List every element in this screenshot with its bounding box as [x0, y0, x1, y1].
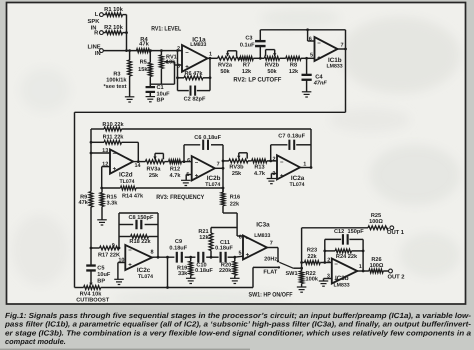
svg-text:R10 22k: R10 22k: [102, 121, 124, 128]
svg-text:R1 10k: R1 10k: [104, 6, 123, 13]
resistor R25 100R: [368, 213, 388, 230]
svg-text:IC2c: IC2c: [137, 267, 151, 274]
svg-text:6: 6: [187, 158, 190, 164]
svg-text:R25: R25: [371, 213, 381, 219]
wire C7 right vertical / R10 feedback down: [310, 129, 313, 169]
svg-text:10uF: 10uF: [157, 91, 171, 97]
svg-text:RV1: LEVEL: RV1: LEVEL: [151, 26, 181, 33]
terminal OUT 1: [387, 226, 405, 236]
capacitor C9 0.18uF: [169, 239, 190, 262]
potentiometer RV3a 25k: [145, 153, 164, 179]
ground C4: [302, 92, 312, 97]
svg-text:150pF: 150pF: [348, 229, 365, 235]
wire IC2b output jog up to RV3b rail: [223, 160, 229, 162]
op-amp IC2d TL074: [91, 148, 142, 188]
svg-text:R8: R8: [290, 63, 297, 69]
svg-text:25k: 25k: [149, 172, 159, 179]
capacitor C2 82pF: [178, 86, 211, 103]
svg-text:0.18uF: 0.18uF: [195, 268, 213, 274]
svg-text:−: −: [128, 248, 132, 254]
svg-text:BP: BP: [157, 98, 165, 104]
svg-text:R17 22K: R17 22K: [98, 252, 120, 258]
wire C3 top rail to IC1b output: [260, 29, 345, 31]
svg-text:4.7k: 4.7k: [254, 170, 266, 177]
svg-text:er stage (IC3b). The combinati: er stage (IC3b). The combination is a ve…: [5, 328, 471, 337]
wire IC2b output: [215, 167, 223, 169]
resistor R13 4.7k: [248, 159, 277, 177]
capacitor C12 150pF: [325, 229, 365, 272]
svg-text:−: −: [113, 152, 117, 158]
ground IC2a pin3: [267, 179, 277, 184]
potentiometer RV2a 50k: [218, 51, 240, 75]
wire IC3b pin2 node vertical: [323, 239, 326, 264]
svg-text:LM833: LM833: [334, 282, 350, 288]
svg-text:22k: 22k: [307, 253, 317, 260]
wire R16 bottom to IC3a pin6 node: [223, 206, 237, 228]
svg-text:R18 22k: R18 22k: [129, 238, 151, 245]
svg-text:6: 6: [239, 234, 242, 240]
capacitor C4 47nF: [302, 57, 328, 92]
svg-text:+: +: [280, 174, 284, 180]
svg-text:CUT/BOOST: CUT/BOOST: [76, 296, 110, 303]
svg-text:pass filter (IC1b), a parametr: pass filter (IC1b), a parametric equalis…: [4, 320, 472, 329]
capacitor C8 150pF feedback loop: [119, 213, 158, 257]
capacitor C11 0.18uF: [211, 240, 235, 263]
terminal L (SPK IN left): [95, 12, 104, 18]
svg-text:0.18uF: 0.18uF: [215, 246, 233, 252]
resistor R10 22k: [91, 128, 104, 130]
svg-text:1: 1: [359, 264, 362, 270]
svg-text:C1: C1: [157, 85, 164, 91]
svg-text:2: 2: [327, 257, 330, 263]
terminal R (SPK IN right): [94, 30, 103, 36]
wire input node vertical x91: [90, 129, 93, 192]
resistor R9 47k: [78, 192, 92, 207]
svg-text:−: −: [246, 237, 250, 243]
label SPK IN: [88, 18, 101, 31]
scan mottling: [12, 9, 460, 305]
svg-text:+: +: [195, 174, 199, 180]
op-amp IC1a LM833: [177, 37, 212, 72]
wire R10 feedback line to IC2a output: [122, 128, 312, 130]
svg-text:IN: IN: [95, 51, 101, 57]
svg-text:12: 12: [102, 161, 108, 167]
svg-text:33k: 33k: [178, 270, 188, 277]
svg-text:SW1: SW1: [285, 271, 297, 277]
wire IC2b pin5 to ground: [186, 175, 192, 181]
svg-text:0.18uF: 0.18uF: [169, 245, 187, 251]
svg-text:R26: R26: [371, 257, 381, 263]
wire IC3b output: [357, 270, 369, 272]
svg-text:R24 22k: R24 22k: [336, 253, 358, 260]
svg-text:8: 8: [151, 250, 154, 256]
resistor R22 100k: [300, 267, 319, 287]
svg-text:C8 150pF: C8 150pF: [129, 215, 154, 221]
potentiometer RV3b 25k: [229, 153, 248, 177]
ground R19: [186, 278, 196, 283]
wire IC2d output: [133, 161, 145, 163]
svg-text:5: 5: [239, 251, 242, 257]
caption figure text: [4, 311, 472, 346]
ground R3: [125, 97, 135, 102]
svg-text:TL074: TL074: [120, 179, 135, 185]
wire IC1a feedback left vertical: [176, 49, 179, 90]
resistor R4 47k: [137, 37, 151, 53]
svg-text:220k: 220k: [219, 267, 232, 274]
svg-text:TL074: TL074: [138, 274, 153, 280]
resistor R7 12k: [239, 56, 265, 75]
svg-text:10uF: 10uF: [97, 272, 111, 278]
resistor R15 3.3k: [100, 188, 118, 220]
svg-text:RV2: LP CUTOFF: RV2: LP CUTOFF: [233, 77, 281, 84]
svg-text:−: −: [334, 262, 338, 268]
svg-text:L: L: [95, 12, 99, 18]
svg-text:C5: C5: [97, 266, 104, 272]
wire R21 to IC3a pin6: [211, 228, 243, 237]
svg-text:1: 1: [209, 51, 212, 57]
svg-text:C2 82pF: C2 82pF: [184, 97, 206, 103]
potentiometer RV4 10k CUT/BOOST: [75, 283, 254, 304]
svg-text:R16: R16: [230, 195, 240, 201]
resistor R17 22K: [90, 246, 121, 258]
wire FLAT branch vertical: [166, 256, 169, 289]
svg-text:0.1uF: 0.1uF: [240, 42, 255, 48]
svg-text:Fig.1: Signals pass through fi: Fig.1: Signals pass through five sequent…: [5, 311, 472, 320]
resistor R6 47k: [178, 70, 212, 80]
resistor R10 22k body: [102, 121, 124, 131]
resistor R26 100R: [369, 257, 389, 273]
svg-text:C3: C3: [245, 36, 252, 42]
svg-text:−: −: [317, 41, 321, 47]
svg-text:50k: 50k: [267, 68, 277, 75]
svg-text:C7: C7: [278, 133, 285, 139]
ground R20: [230, 278, 240, 283]
svg-text:7: 7: [341, 42, 344, 48]
svg-text:C4: C4: [315, 73, 323, 80]
svg-text:R7: R7: [243, 63, 250, 69]
svg-text:LM833: LM833: [190, 42, 206, 48]
wire IC2c pin10 to ground: [118, 263, 125, 280]
svg-text:20Hz: 20Hz: [264, 256, 277, 262]
svg-text:TL074: TL074: [290, 182, 305, 188]
resistor R1 10k: [103, 6, 126, 16]
svg-text:22k: 22k: [230, 200, 240, 207]
svg-text:R2 10k: R2 10k: [104, 24, 123, 31]
wire RV1 wiper to IC1a pin3: [150, 62, 182, 84]
svg-text:47nF: 47nF: [313, 81, 328, 87]
svg-text:12k: 12k: [242, 68, 252, 75]
svg-text:FLAT: FLAT: [263, 270, 277, 276]
wire IC2a output: [300, 167, 311, 169]
svg-text:4.7k: 4.7k: [170, 172, 182, 179]
svg-text:R5: R5: [140, 60, 147, 66]
svg-text:LINE: LINE: [87, 44, 100, 50]
resistor R19 33k: [177, 256, 193, 278]
svg-text:SW1: HP ON/OFF: SW1: HP ON/OFF: [249, 291, 293, 298]
ground IC2b pin5: [181, 180, 191, 185]
label SW1: HP ON/OFF: [249, 291, 293, 298]
op-amp IC2a TL074: [272, 155, 306, 188]
svg-text:TL074: TL074: [205, 182, 220, 188]
svg-text:−: −: [280, 160, 284, 166]
switch SW1 lever: [279, 262, 301, 277]
svg-text:+: +: [128, 262, 132, 268]
resistor R16 22k: [221, 192, 240, 207]
svg-text:R11 22k: R11 22k: [103, 134, 125, 141]
resistor R3 100k/1k: [103, 49, 131, 97]
resistor R20 220k: [219, 256, 237, 278]
svg-text:RV4 10k: RV4 10k: [80, 290, 103, 297]
svg-text:1: 1: [303, 162, 306, 168]
svg-text:+: +: [113, 166, 117, 172]
ground R15: [97, 220, 107, 225]
svg-text:R14 47k: R14 47k: [122, 192, 144, 199]
svg-text:R6 47k: R6 47k: [184, 70, 203, 77]
wire FLAT return path: [253, 267, 279, 287]
svg-text:RV3: FREQUENCY: RV3: FREQUENCY: [156, 194, 205, 201]
ground IC2c pin10: [114, 279, 124, 284]
resistor R21 12k: [198, 228, 213, 259]
wire IC2c output rail: [152, 256, 174, 259]
resistor R23 22k: [302, 248, 332, 265]
svg-text:R13: R13: [254, 165, 264, 171]
svg-text:47k: 47k: [78, 199, 88, 206]
wire IC1a output rail: [208, 57, 218, 59]
ground R22: [297, 287, 307, 292]
wire R9 bottom to R17 node: [90, 207, 92, 248]
svg-text:9: 9: [112, 243, 115, 249]
ground IC3b pin3: [319, 281, 329, 286]
potentiometer RV2b 50k: [264, 50, 279, 75]
svg-text:100k: 100k: [306, 276, 319, 283]
wire IC3a output to switch contact 20Hz: [264, 248, 279, 263]
svg-text:+: +: [246, 252, 250, 258]
resistor R12 4.7k: [164, 160, 191, 179]
label RV3: FREQUENCY: [156, 194, 205, 201]
wire R11 to IC2d output: [137, 142, 140, 163]
svg-text:RV3a: RV3a: [147, 167, 162, 173]
resistor R18 22k: [119, 235, 158, 246]
svg-text:2: 2: [273, 157, 276, 163]
terminal LINE IN: [87, 44, 103, 57]
wire left bus down to RV4: [74, 112, 76, 287]
svg-text:7: 7: [270, 241, 273, 247]
capacitor C3 0.1uF: [240, 30, 266, 60]
svg-text:47k: 47k: [139, 40, 149, 47]
wire C6 right vertical: [222, 145, 225, 193]
svg-text:R3: R3: [113, 71, 120, 77]
op-amp IC1b LM833: [309, 37, 344, 70]
svg-text:100Ω: 100Ω: [369, 219, 383, 225]
svg-text:−: −: [195, 160, 199, 166]
svg-text:+: +: [317, 55, 321, 61]
svg-text:25k: 25k: [232, 170, 242, 177]
capacitor C7 0.18uF: [269, 133, 311, 162]
svg-text:13: 13: [102, 148, 108, 154]
svg-text:IC3b: IC3b: [335, 275, 349, 282]
resistor R24 22k: [325, 249, 363, 260]
svg-text:100k/1k: 100k/1k: [106, 77, 127, 84]
svg-text:50k: 50k: [220, 68, 230, 75]
svg-text:5: 5: [310, 53, 313, 59]
svg-text:0.18uF: 0.18uF: [287, 133, 305, 139]
svg-text:R23: R23: [307, 248, 317, 254]
svg-text:LM833: LM833: [327, 63, 343, 69]
svg-text:C9: C9: [175, 239, 182, 245]
wire IC2a pin3 to ground: [271, 174, 277, 179]
svg-text:RV2a: RV2a: [218, 63, 233, 69]
label RV2: LP CUTOFF: [233, 77, 281, 84]
resistor R2 10k: [103, 24, 126, 34]
wire stage divider horizontal: [75, 111, 346, 113]
resistor R8 12k: [280, 56, 315, 75]
svg-text:3.3k: 3.3k: [107, 200, 119, 207]
svg-text:−: −: [185, 50, 189, 56]
wire IC1a feedback right vertical: [209, 57, 212, 91]
svg-text:RV3b: RV3b: [229, 164, 244, 171]
svg-text:R12: R12: [170, 167, 180, 173]
svg-text:compact module.: compact module.: [5, 337, 66, 346]
svg-text:100Ω: 100Ω: [370, 263, 384, 269]
wire IC1b pin6 to top rail: [306, 28, 314, 41]
svg-text:R15: R15: [107, 194, 117, 200]
svg-text:LM833: LM833: [254, 233, 270, 239]
wire IC3b pin3 to ground: [324, 279, 332, 282]
op-amp IC3a LM833: [239, 221, 273, 259]
capacitor C6 0.18uF: [183, 135, 223, 163]
terminal OUT 2: [387, 269, 404, 281]
svg-text:IC2d: IC2d: [119, 171, 133, 178]
svg-text:+: +: [185, 65, 189, 71]
wire line input rail: [103, 50, 182, 52]
switch SW1 contact FLAT: [263, 266, 280, 276]
svg-text:OUT 1: OUT 1: [387, 229, 405, 236]
svg-text:12k: 12k: [289, 68, 299, 75]
wire R1/R2 junction to line input: [125, 15, 128, 52]
op-amp IC2b TL074: [186, 156, 220, 188]
svg-text:14: 14: [135, 163, 142, 169]
resistor R14 47k: [100, 186, 224, 199]
capacitor C1 10uF BP: [146, 84, 171, 103]
svg-text:IC3a: IC3a: [256, 221, 270, 228]
svg-text:C6: C6: [194, 135, 201, 141]
ground C1: [146, 97, 156, 102]
op-amp IC2c TL074: [112, 243, 154, 280]
svg-text:15k: 15k: [138, 66, 148, 73]
svg-text:IC2b: IC2b: [207, 175, 221, 182]
wire IC1b output: [338, 48, 347, 51]
resistor R11 22k: [91, 134, 138, 145]
svg-text:7: 7: [217, 161, 220, 167]
wire IC1b output down to stage 2: [345, 30, 347, 113]
wire SW1 common up to OUT1 line: [300, 228, 368, 268]
svg-text:*see text: *see text: [103, 84, 126, 90]
op-amp IC3b LM833: [327, 257, 362, 288]
svg-text:0.18uF: 0.18uF: [203, 135, 221, 141]
wire R16 top connection: [222, 188, 224, 192]
svg-text:BP: BP: [97, 278, 105, 284]
svg-text:IC2a: IC2a: [291, 175, 305, 182]
wire rail to IC3a pin5: [235, 256, 243, 257]
svg-text:SPK: SPK: [88, 18, 101, 25]
label RV1: LEVEL: [151, 26, 181, 33]
svg-text:C12: C12: [334, 229, 344, 235]
svg-text:OUT 2: OUT 2: [387, 274, 404, 281]
svg-text:12k: 12k: [199, 234, 209, 241]
svg-text:RV2b: RV2b: [265, 62, 280, 69]
capacitor C5 10uF BP: [86, 248, 111, 284]
resistor R5 15k: [138, 49, 152, 85]
scan edge artifact bottom: [0, 349, 250, 350]
potentiometer RV1 10k: [160, 49, 177, 84]
capacitor C10 0.18uF: [191, 252, 214, 274]
